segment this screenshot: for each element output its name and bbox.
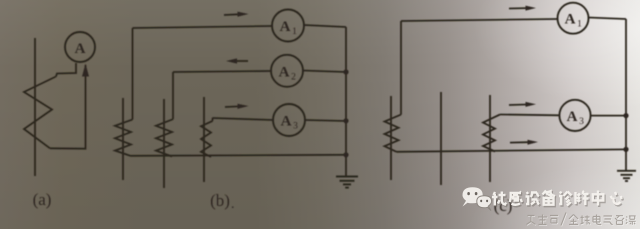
current arrow right (c A1) bbox=[509, 6, 536, 11]
wire top to A1 (c) bbox=[401, 19, 557, 21]
phase lead line L1 (b) bbox=[122, 98, 124, 180]
wire drop to winding 2 (b) bbox=[172, 72, 174, 119]
winding zigzag W3 (b) bbox=[201, 121, 213, 157]
wire lead vertical (a) bbox=[34, 38, 36, 176]
svg-text:.: . bbox=[231, 197, 235, 212]
wire A3 to bus (c) bbox=[591, 115, 627, 117]
wire A1 to bus (c) bbox=[589, 18, 627, 20]
current arrow right (b A3) bbox=[225, 104, 249, 109]
svg-text:A: A bbox=[281, 114, 292, 130]
svg-text:3: 3 bbox=[579, 117, 584, 127]
wire drop to winding 3 (b) bbox=[212, 118, 214, 121]
wire A1 to bus (b) bbox=[304, 25, 346, 27]
wire drop to winding 1 (b) bbox=[132, 28, 134, 120]
current arrow right (b A1) bbox=[224, 12, 249, 17]
watermark text 优感设备诊断中心 (simulated strokes) bbox=[493, 192, 623, 207]
ammeter A3 (c) bbox=[559, 100, 590, 131]
svg-text:1: 1 bbox=[292, 27, 297, 37]
ammeter A1 (b) bbox=[272, 10, 304, 42]
ground (b) bbox=[336, 177, 358, 188]
winding zigzag W1 (c) bbox=[385, 115, 402, 152]
winding zigzag (a) bbox=[24, 77, 56, 149]
svg-text:(b): (b) bbox=[210, 191, 230, 210]
wire top to A1 (b) bbox=[133, 26, 273, 28]
svg-text:1: 1 bbox=[577, 20, 582, 30]
wire to A3 (c) bbox=[500, 114, 560, 117]
svg-text:A: A bbox=[565, 12, 576, 28]
wire to A2 (b) bbox=[173, 71, 271, 72]
wire drop to winding 1 (c) bbox=[400, 21, 402, 115]
junction node A2-bus (b) bbox=[343, 69, 348, 74]
watermark logo wechat bbox=[463, 187, 492, 210]
svg-text:A: A bbox=[75, 41, 86, 57]
svg-text:3: 3 bbox=[293, 122, 298, 132]
current arrow right (c A3) bbox=[509, 102, 536, 107]
phase lead line L1 (c) bbox=[390, 96, 392, 180]
phase lead line L2 (b) bbox=[163, 99, 165, 188]
wire winding-bottom return (a) bbox=[50, 65, 86, 149]
ammeter A3 (b) bbox=[273, 104, 305, 136]
svg-text:A: A bbox=[567, 109, 578, 125]
junction node neutral-bus (c) bbox=[623, 147, 628, 152]
current arrow into ammeter (a) bbox=[82, 64, 89, 77]
right bus wire (b) bbox=[345, 27, 347, 176]
right bus wire (c) bbox=[625, 19, 627, 149]
winding zigzag W1 (b) bbox=[115, 120, 133, 157]
svg-text:A: A bbox=[280, 19, 291, 35]
current arrow right (c neutral) bbox=[510, 140, 538, 145]
watermark small text: toutiao line (simulated) bbox=[527, 213, 636, 226]
ammeter A1 (c) bbox=[558, 3, 589, 34]
winding zigzag W3 (c) bbox=[483, 115, 500, 152]
ground (c) bbox=[617, 149, 636, 181]
phase lead line L3 (c) bbox=[489, 95, 491, 182]
junction node A3-bus (c) bbox=[623, 113, 628, 118]
junction node neutral-bus (b) bbox=[343, 152, 348, 157]
svg-text:A: A bbox=[279, 64, 290, 80]
wire A2 to bus (b) bbox=[303, 71, 346, 73]
svg-text:(a): (a) bbox=[33, 190, 52, 209]
neutral bus wire (b) bbox=[131, 155, 346, 156]
ammeter A (a) bbox=[65, 32, 95, 62]
wire winding-top to ammeter (a) bbox=[56, 63, 76, 77]
phase lead line L3 (b) bbox=[203, 97, 205, 182]
neutral bus wire (c) bbox=[397, 149, 627, 151]
wire A3 to bus (b) bbox=[305, 120, 346, 121]
current arrow left (b A2) bbox=[226, 58, 248, 63]
ammeter A2 (b) bbox=[271, 55, 303, 87]
wire to A3 (b) bbox=[213, 118, 274, 120]
phase lead line L2 (c) bbox=[440, 92, 442, 185]
winding zigzag W2 (b) bbox=[156, 119, 173, 156]
junction node A3-bus (b) bbox=[343, 118, 348, 123]
svg-text:2: 2 bbox=[291, 72, 296, 82]
